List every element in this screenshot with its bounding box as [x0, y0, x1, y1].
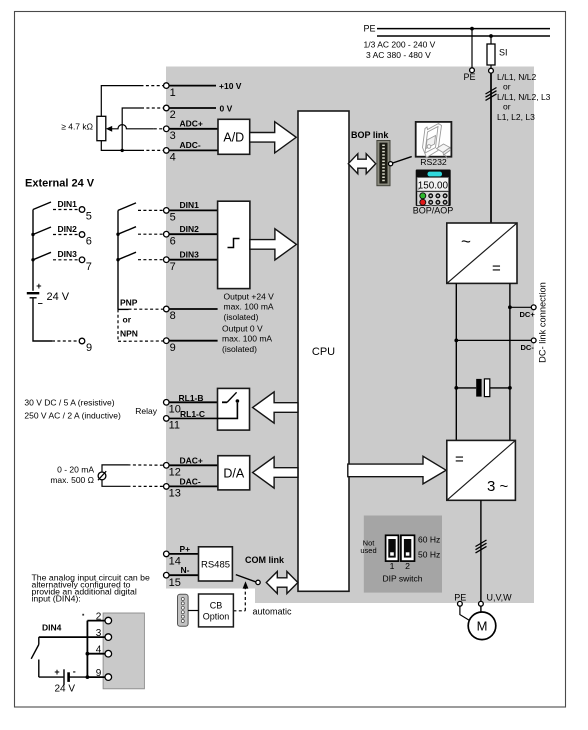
label output 0V	[222, 324, 272, 355]
wire connector to CB option	[188, 610, 198, 612]
svg-text:=: =	[455, 451, 464, 468]
svg-text:7: 7	[170, 261, 176, 273]
RS232 adapter icon U9	[416, 122, 452, 167]
wire PNP row	[118, 308, 129, 310]
wire to fuse	[490, 36, 492, 44]
D/A converter U6	[218, 456, 250, 490]
svg-text:SI: SI	[499, 48, 508, 58]
wire terminal 15 to RS485	[169, 574, 198, 576]
svg-text:DAC+: DAC+	[180, 456, 203, 466]
svg-text:=: =	[492, 260, 501, 277]
svg-text:DC+: DC+	[520, 310, 536, 319]
svg-text:DIN1: DIN1	[180, 200, 200, 210]
svg-text:50 Hz: 50 Hz	[418, 550, 440, 560]
wire terminal 8 output	[169, 308, 218, 310]
wire terminal 11 to relay contact	[169, 403, 237, 419]
junction external DIN2	[31, 233, 34, 236]
wire PE drop	[471, 29, 473, 68]
svg-text:DIN1: DIN1	[58, 199, 78, 209]
switch DIN1 input	[118, 200, 218, 224]
svg-text:60 Hz: 60 Hz	[418, 535, 440, 545]
svg-text:4: 4	[96, 645, 102, 656]
arrow BOP link (bidirectional)	[348, 154, 375, 174]
svg-text:used: used	[360, 546, 376, 555]
svg-text:or: or	[503, 82, 511, 92]
relay K1	[218, 388, 250, 430]
switch DIN1 (external)	[33, 199, 92, 223]
terminal 11	[164, 416, 170, 422]
svg-text:max. 500 Ω: max. 500 Ω	[50, 475, 94, 485]
wire stub to terminal 4'	[87, 653, 105, 655]
wire dashed into terminal 1	[141, 85, 164, 87]
svg-text:(isolated): (isolated)	[224, 312, 259, 322]
motor M1	[468, 612, 496, 640]
svg-text:15: 15	[169, 577, 181, 589]
terminal 2 (option)	[105, 617, 112, 624]
wire terminal 1 to +10V	[169, 85, 216, 87]
svg-text:RS485: RS485	[201, 559, 230, 570]
svg-text:0 - 20 mA: 0 - 20 mA	[57, 464, 94, 474]
wire dashed NPN to terminal 9	[118, 340, 163, 342]
terminal 10	[164, 400, 170, 406]
svg-text:BOP/AOP: BOP/AOP	[413, 206, 454, 216]
svg-text:9: 9	[96, 668, 102, 679]
wire DC+ stub	[510, 306, 532, 308]
drive unit shaded area	[166, 67, 534, 604]
battery B2 24V (DIN4)	[39, 666, 88, 694]
terminal 15	[164, 572, 170, 578]
svg-text:Output 0 V: Output 0 V	[222, 324, 263, 334]
svg-text:3: 3	[96, 628, 102, 639]
terminal PE (input)	[470, 68, 475, 73]
switch DIN3 input	[118, 249, 218, 273]
terminal 9	[164, 338, 170, 344]
svg-text:L/L1, N/L2: L/L1, N/L2	[497, 72, 536, 82]
svg-text:automatic: automatic	[253, 607, 293, 617]
svg-text:~: ~	[461, 232, 471, 251]
svg-text:CPU: CPU	[312, 346, 335, 358]
junction capacitor right	[508, 386, 512, 390]
svg-text:1/3 AC 200 - 240 V: 1/3 AC 200 - 240 V	[364, 40, 436, 50]
svg-text:6: 6	[86, 236, 92, 248]
svg-text:PE: PE	[463, 72, 475, 82]
svg-text:NPN: NPN	[120, 328, 138, 338]
svg-text:ADC+: ADC+	[180, 118, 203, 128]
junction DC+ tap	[508, 305, 512, 309]
svg-text:-: -	[73, 666, 76, 676]
svg-text:DIN3: DIN3	[180, 249, 200, 259]
svg-text:COM link: COM link	[245, 555, 285, 565]
wire terminal 12 to D/A	[169, 464, 218, 466]
arrow COM link (bidirectional)	[266, 572, 298, 594]
junction DIN3 input	[116, 258, 119, 261]
terminal 9 (option)	[105, 674, 112, 681]
svg-text:DIN2: DIN2	[180, 224, 200, 234]
svg-text:5: 5	[170, 212, 176, 224]
wire terminal 13 to D/A	[169, 485, 218, 487]
label analog output ratings	[50, 464, 94, 485]
terminal L/L1	[489, 68, 494, 73]
svg-text:RS232: RS232	[420, 157, 447, 167]
node bus (DIN4 wiring)	[86, 621, 88, 678]
svg-text:input (DIN4):: input (DIN4):	[32, 593, 81, 603]
wire dashed PNP to terminal 8	[129, 308, 164, 310]
svg-text:14: 14	[169, 556, 181, 568]
svg-text:–: –	[38, 298, 43, 308]
svg-text:13: 13	[169, 488, 181, 500]
junction external DIN3	[31, 258, 34, 261]
svg-text:6: 6	[170, 235, 176, 247]
junction DC- tap	[454, 339, 458, 343]
terminal DC-	[531, 338, 536, 343]
svg-text:(isolated): (isolated)	[222, 344, 257, 354]
svg-text:3 ~: 3 ~	[487, 478, 509, 495]
svg-text:Relay: Relay	[135, 406, 157, 416]
svg-text:or: or	[123, 315, 132, 325]
inverter U3	[447, 440, 516, 500]
svg-text:PNP: PNP	[120, 298, 138, 308]
svg-text:Output +24 V: Output +24 V	[224, 292, 275, 302]
wire dashed into terminal 4	[141, 149, 163, 151]
terminal 2	[164, 105, 170, 111]
wire DIN4 row to terminal 3'	[39, 636, 105, 638]
junction at terminal 4 stub	[86, 652, 90, 656]
wire dashed into terminal 12	[128, 464, 164, 466]
svg-text:3 AC 380 - 480 V: 3 AC 380 - 480 V	[366, 50, 431, 60]
wire stub to terminal 9'	[87, 676, 105, 678]
switch DIN3 (external)	[33, 249, 92, 273]
arrow CPU to inverter	[348, 456, 446, 484]
terminal 8	[164, 306, 170, 312]
BOP/AOP operator panel U10	[413, 170, 454, 216]
potentiometer R1 (>=4.7k)	[61, 116, 106, 140]
wire dashed into terminal 13	[128, 485, 164, 487]
svg-text:External 24 V: External 24 V	[25, 178, 95, 190]
wire pot top to terminal 1	[101, 86, 140, 117]
svg-text:8: 8	[170, 310, 176, 322]
label relay ratings	[24, 398, 121, 421]
wire dashed into terminal 9 external	[52, 340, 79, 342]
svg-text:1: 1	[390, 561, 395, 571]
arrow DIN block to CPU	[250, 229, 297, 260]
svg-text:DIN3: DIN3	[58, 249, 78, 259]
capacitor C1 (DC link)	[456, 379, 510, 397]
selector contact	[256, 580, 260, 584]
wire L input to rectifier	[490, 73, 492, 223]
connector J1 (BOP link)	[377, 141, 390, 186]
terminal 1	[164, 83, 170, 89]
CPU U1	[298, 111, 349, 591]
svg-text:RL1-C: RL1-C	[180, 409, 205, 419]
svg-text:2: 2	[405, 561, 410, 571]
svg-text:DIN4: DIN4	[42, 623, 62, 633]
wire DC bus right	[509, 283, 511, 440]
wire pot bottom to terminal 4	[101, 141, 141, 151]
svg-text:CB: CB	[210, 601, 223, 611]
arrow CPU to D/A	[253, 457, 298, 488]
svg-text:3: 3	[170, 130, 176, 142]
svg-text:max. 100 mA: max. 100 mA	[224, 302, 274, 312]
connector J2 (CB option)	[178, 594, 189, 626]
svg-text:N-: N-	[181, 565, 190, 575]
wire dashed PNP-NPN link	[117, 309, 119, 341]
junction capacitor left	[454, 386, 458, 390]
label output +24V	[224, 292, 275, 323]
fuse SI	[487, 44, 508, 65]
selector switch blade (COM link)	[236, 575, 256, 582]
wire PE to motor	[460, 606, 470, 621]
svg-text:PE: PE	[454, 593, 466, 603]
DIP switch panel background	[364, 516, 442, 593]
svg-text:1: 1	[170, 87, 176, 99]
svg-text:U,V,W: U,V,W	[487, 593, 513, 603]
wire battery to terminal 9 (external)	[33, 298, 52, 341]
cable break marks (motor)	[476, 540, 487, 553]
svg-text:5: 5	[86, 211, 92, 223]
svg-text:+: +	[36, 281, 41, 291]
terminal DC+	[531, 305, 536, 310]
svg-text:250 V AC / 2 A (inductive): 250 V AC / 2 A (inductive)	[24, 411, 121, 421]
wire meter to terminal 13	[102, 480, 128, 487]
wire stub to terminal 2'	[87, 620, 105, 622]
wire terminal 9 output	[169, 340, 218, 342]
net PE rail line 2	[377, 35, 550, 37]
svg-text:ADC-: ADC-	[180, 140, 201, 150]
wire terminal 3 to A/D	[169, 128, 218, 130]
svg-text:+10 V: +10 V	[219, 81, 242, 91]
CB option module U8	[199, 594, 234, 627]
digital input conditioner U5	[218, 201, 250, 288]
svg-text:11: 11	[169, 420, 180, 432]
switch DIN2 (external)	[33, 224, 92, 248]
contact on BOP connector	[389, 162, 393, 166]
svg-text:P+: P+	[180, 544, 191, 554]
label L/L1 options	[497, 72, 551, 122]
wire terminal 10 to relay	[169, 401, 218, 403]
wire terminal 4 to A/D	[169, 149, 218, 151]
switch DIN2 input	[118, 224, 218, 248]
arrow A/D to CPU	[250, 122, 297, 153]
terminal 4	[164, 148, 170, 154]
svg-text:A/D: A/D	[223, 130, 244, 144]
terminal strip (DIN4 option)	[103, 613, 144, 689]
external supply bus	[32, 210, 34, 291]
svg-text:DIN2: DIN2	[58, 224, 78, 234]
svg-text:4: 4	[170, 152, 176, 164]
battery B1 24V	[27, 281, 70, 308]
terminal 4 (option)	[105, 650, 112, 657]
svg-text:DAC-: DAC-	[180, 477, 201, 487]
wire connector to RS232	[393, 157, 412, 163]
A/D converter U4	[218, 119, 250, 154]
svg-text:PE: PE	[364, 24, 376, 34]
svg-text:BOP link: BOP link	[351, 130, 389, 140]
junction on PE rail	[470, 27, 474, 31]
terminal 13	[164, 484, 170, 490]
svg-text:10: 10	[169, 404, 181, 416]
net PE rail line 1	[377, 28, 550, 30]
wire terminal 2 to 0V	[169, 107, 216, 109]
RS485 transceiver U7	[199, 547, 233, 581]
svg-text:24 V: 24 V	[55, 684, 76, 695]
arrow CPU to relay	[253, 392, 298, 423]
svg-text:L/L1, N/L2, L3: L/L1, N/L2, L3	[497, 92, 551, 102]
digital input bus	[117, 210, 119, 309]
svg-text:DIP switch: DIP switch	[383, 574, 423, 584]
terminal 9 (external)	[79, 338, 85, 344]
wire terminal 2 branch	[122, 108, 141, 150]
svg-text:2: 2	[96, 612, 102, 623]
wire fuse to terminal	[490, 65, 492, 68]
switch DIN4	[31, 637, 39, 677]
wire inverter to motor	[480, 500, 482, 601]
terminal 14	[164, 551, 170, 557]
svg-text:150.00: 150.00	[418, 180, 449, 191]
svg-text:24 V: 24 V	[47, 291, 70, 303]
svg-text:30 V DC / 5 A (resistive): 30 V DC / 5 A (resistive)	[24, 398, 114, 408]
terminal U,V,W	[479, 601, 484, 606]
svg-text:M: M	[477, 619, 488, 634]
wire DC bus left	[455, 283, 457, 440]
svg-text:7: 7	[86, 261, 92, 273]
svg-text:DC-: DC-	[521, 343, 535, 352]
stray mark	[82, 614, 84, 616]
junction at terminal 9 stub	[86, 675, 90, 679]
wire terminal to motor	[480, 606, 482, 612]
svg-text:or: or	[503, 102, 511, 112]
svg-text:2: 2	[170, 109, 176, 121]
rectifier U2	[447, 223, 517, 283]
junction pot bottom / terminal 2 branch	[121, 149, 124, 152]
wire DC- stub	[456, 339, 531, 341]
svg-text:D/A: D/A	[223, 466, 245, 480]
svg-text:+: +	[54, 667, 59, 677]
wire dashed into terminal 3	[154, 128, 164, 130]
terminal 3	[164, 126, 170, 132]
terminal 12	[164, 463, 170, 469]
wire meter to terminal 12	[102, 465, 128, 472]
terminal PE (output)	[458, 601, 463, 606]
svg-text:0 V: 0 V	[220, 103, 233, 113]
wiper arrow of potentiometer	[106, 125, 154, 132]
svg-text:9: 9	[170, 342, 176, 354]
svg-text:Option: Option	[203, 612, 230, 622]
junction DIN2 input	[116, 233, 119, 236]
svg-text:max. 100 mA: max. 100 mA	[222, 334, 272, 344]
svg-text:DC- link connection: DC- link connection	[538, 282, 548, 363]
svg-text:≥ 4.7 kΩ: ≥ 4.7 kΩ	[61, 122, 93, 132]
terminal 3 (option)	[105, 634, 112, 641]
DIP switch S1	[360, 535, 440, 584]
wire terminal 14 to RS485	[169, 553, 198, 555]
meter M (analog output load)	[98, 471, 106, 480]
svg-text:L1, L2, L3: L1, L2, L3	[497, 112, 535, 122]
junction on L rail	[489, 34, 493, 38]
svg-text:9: 9	[86, 342, 92, 354]
note analog input as DIN4	[32, 573, 150, 604]
cable break marks (mains)	[486, 88, 497, 101]
wire dashed into terminal 2	[141, 107, 163, 109]
wire dashed automatic select	[233, 581, 248, 611]
